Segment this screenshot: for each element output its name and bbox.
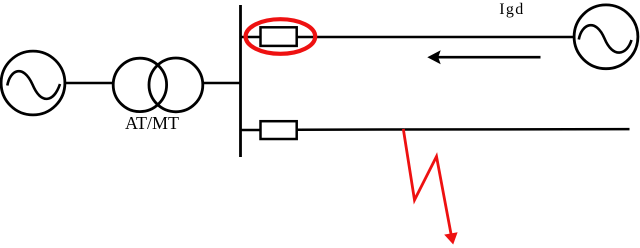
- wire busbar to breaker CB2: [241, 129, 260, 131]
- wire CB1 to generator Igd: [298, 36, 575, 38]
- wire G1 to transformer: [66, 82, 112, 84]
- svg-text:AT/MT: AT/MT: [125, 113, 179, 133]
- generator G2 (top-right AC source): [574, 5, 638, 69]
- wire CB2 to line end (bottom feeder): [298, 128, 630, 131]
- breaker CB1 (top feeder rectangle): [261, 27, 297, 46]
- red ellipse highlight around CB1: [246, 19, 316, 54]
- busbar (vertical): [239, 5, 242, 157]
- wire transformer to busbar: [204, 82, 241, 84]
- arrow (current direction, pointing left): [427, 50, 540, 64]
- generator G1 (left AC source): [1, 51, 65, 115]
- svg-text:Igd: Igd: [499, 1, 524, 18]
- breaker CB2 (bottom feeder rectangle): [261, 121, 297, 139]
- wire busbar to breaker CB1: [241, 36, 260, 38]
- fault lightning bolt (red): [403, 129, 457, 245]
- transformer AT/MT (two overlapping circles): [113, 58, 203, 112]
